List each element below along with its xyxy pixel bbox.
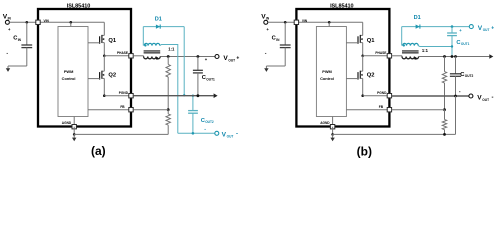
svg-text:Q2: Q2 [367, 72, 375, 78]
svg-text:PHASE: PHASE [375, 51, 386, 55]
svg-text:Q2: Q2 [108, 72, 116, 78]
svg-text:ISL85410: ISL85410 [67, 3, 90, 9]
svg-text:FB: FB [379, 105, 384, 109]
svg-text:PGND: PGND [119, 91, 129, 95]
svg-text:OUT1: OUT1 [461, 42, 470, 46]
svg-text:VIN: VIN [302, 19, 308, 23]
svg-text:OUT: OUT [482, 98, 489, 102]
svg-text:1:1: 1:1 [422, 48, 429, 53]
svg-text:OUT: OUT [483, 28, 490, 32]
svg-text:ISL85410: ISL85410 [330, 3, 353, 9]
svg-text:OUT2: OUT2 [205, 120, 214, 124]
svg-text:D1: D1 [414, 15, 421, 21]
svg-text:OUT2: OUT2 [465, 74, 474, 78]
svg-text:Q1: Q1 [108, 38, 117, 44]
svg-text:+: + [236, 55, 239, 61]
svg-text:-: - [265, 50, 267, 56]
svg-text:Control: Control [62, 76, 76, 81]
svg-text:1:1: 1:1 [168, 46, 175, 51]
svg-text:(b): (b) [357, 144, 372, 158]
svg-text:PWM: PWM [64, 69, 74, 74]
svg-text:D1: D1 [155, 17, 162, 23]
svg-text:OUT: OUT [228, 58, 235, 62]
svg-text:-: - [492, 95, 494, 101]
svg-text:PHASE: PHASE [117, 51, 128, 55]
svg-text:AGND: AGND [320, 121, 330, 125]
svg-text:(a): (a) [91, 144, 106, 158]
svg-text:Control: Control [320, 76, 334, 81]
svg-text:OUT1: OUT1 [206, 77, 215, 81]
svg-text:-: - [204, 127, 206, 133]
svg-text:-: - [459, 89, 461, 95]
svg-text:VIN: VIN [44, 19, 50, 23]
svg-text:Q1: Q1 [367, 38, 376, 44]
svg-text:-: - [6, 50, 8, 56]
svg-text:FB: FB [120, 105, 125, 109]
svg-text:OUT: OUT [227, 135, 234, 139]
svg-text:-: - [236, 132, 238, 138]
svg-text:PWM: PWM [322, 69, 332, 74]
svg-text:AGND: AGND [62, 121, 72, 125]
svg-text:+: + [491, 25, 494, 31]
svg-text:PGND: PGND [377, 91, 387, 95]
